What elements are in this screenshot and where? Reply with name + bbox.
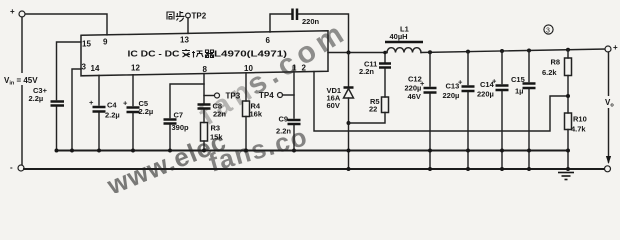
svg-text:2.2µ: 2.2µ (139, 107, 154, 116)
svg-text:C14: C14 (480, 80, 495, 89)
wire C11 to R5 (384, 69, 386, 97)
node snubber tap junction (383, 51, 387, 55)
node C4 bus junction (97, 149, 101, 153)
capacitor C8 (198, 102, 227, 119)
svg-text:+: + (123, 99, 128, 108)
node pin3 bus junction (70, 149, 74, 153)
inductor L1 (385, 25, 423, 53)
node + input terminal (10, 7, 25, 17)
svg-text:16k: 16k (250, 110, 263, 119)
svg-text:TP3: TP3 (226, 92, 241, 101)
node R8 rail junction (566, 48, 570, 52)
svg-text:C15: C15 (511, 75, 525, 84)
svg-text:1µ: 1µ (515, 87, 524, 96)
wire IC output to L1 (328, 52, 387, 54)
svg-text:22: 22 (369, 105, 377, 114)
capacitor C14 (477, 77, 509, 99)
wire pin14 to C4 (98, 75, 100, 105)
wire C14 to rails (501, 92, 503, 170)
node VD1 snubber junction (347, 121, 351, 125)
wire C14 column (501, 51, 503, 84)
label Vin = 45V (3, 73, 47, 87)
capacitor C12 (405, 75, 437, 102)
node C13 rail junction (466, 50, 470, 54)
svg-text:R10: R10 (573, 115, 587, 124)
svg-text:10: 10 (244, 64, 253, 73)
wire bootstrap to switch node (298, 14, 349, 53)
node TP4 (259, 91, 294, 100)
svg-text:C12: C12 (408, 75, 422, 84)
label circled 3 (544, 25, 553, 35)
svg-text:-: - (10, 163, 13, 172)
wire output rail (421, 49, 606, 53)
label IC title (128, 50, 288, 59)
wire R10 to rails (567, 130, 569, 170)
wire R8 to junction (567, 76, 569, 114)
svg-text:1: 1 (292, 64, 297, 73)
wire top input rail (25, 14, 107, 35)
svg-text:2.2n: 2.2n (359, 67, 374, 76)
node C14 rail junction (500, 49, 504, 53)
ground bus (upper) (57, 150, 569, 152)
svg-text:R8: R8 (551, 58, 561, 67)
svg-text:14: 14 (91, 64, 100, 73)
node C3 bus junction (55, 149, 59, 153)
svg-text:IC DC - DC: IC DC - DC (128, 50, 180, 59)
capacitor C3 (29, 86, 65, 106)
wire pin15 to C3 (57, 42, 82, 100)
wire R5 to VD1 (349, 113, 386, 124)
svg-text:390p: 390p (172, 123, 190, 132)
node switch junction (347, 51, 351, 55)
node + output terminal (605, 43, 618, 52)
svg-text:22n: 22n (213, 110, 226, 119)
node C15 rail junction (527, 49, 531, 53)
svg-text:2.2n: 2.2n (276, 127, 291, 136)
svg-text:13: 13 (180, 36, 189, 45)
node C13 bus junction (466, 149, 470, 153)
node TP2 (186, 12, 207, 21)
node VD1 bus junction (347, 149, 351, 153)
svg-text:15k: 15k (210, 133, 223, 142)
node C7 bus junction (168, 149, 172, 153)
node VD1 rail junction (347, 167, 351, 171)
wire output right vertical (608, 52, 610, 162)
svg-text:12: 12 (131, 64, 140, 73)
wire R4 to bus (245, 117, 247, 151)
svg-text:Vin = 45V: Vin = 45V (4, 76, 38, 87)
wire C13 to rails (467, 93, 469, 170)
node R3 bus junction (202, 149, 206, 153)
capacitor 220n bootstrap (293, 9, 320, 27)
wire C15 to rails (528, 90, 530, 170)
svg-text:9: 9 (103, 38, 108, 47)
svg-text:3: 3 (546, 28, 550, 35)
wire C9 to bus (293, 126, 295, 151)
wire pin1 column (293, 72, 295, 118)
wire C12 column (429, 52, 431, 86)
svg-text:15: 15 (82, 40, 91, 49)
resistor R4 (243, 101, 263, 119)
svg-text:C13: C13 (446, 82, 460, 91)
wire output arrow (606, 156, 611, 164)
wire C8 to R3 (203, 110, 205, 123)
svg-text:C9: C9 (279, 115, 289, 124)
node - input terminal (10, 163, 24, 172)
svg-text:2.2µ: 2.2µ (105, 111, 120, 120)
svg-text:4.7k: 4.7k (571, 125, 586, 134)
wire pin8 column (203, 74, 205, 103)
diode VD1 (327, 53, 354, 111)
svg-text:+: + (89, 98, 94, 107)
resistor R8 (542, 50, 572, 77)
node R10 bus junction (566, 149, 570, 153)
wire C4 to bus (98, 113, 100, 151)
wire VD1 anode down (348, 98, 350, 169)
wire input left vertical (21, 17, 23, 165)
capacitor C11 (359, 60, 391, 77)
svg-text:3: 3 (82, 63, 87, 72)
wire pin10 column (245, 73, 247, 101)
wire C5 to bus (132, 114, 134, 151)
node C14 bus junction (500, 149, 504, 153)
svg-text:+: + (10, 7, 15, 16)
svg-text:L4970(L4971): L4970(L4971) (214, 50, 287, 59)
wire snubber tap (384, 53, 386, 63)
svg-text:6.2k: 6.2k (542, 68, 557, 77)
resistor R5 (369, 97, 389, 114)
wire pin3 to bus (72, 69, 81, 151)
svg-text:C7: C7 (174, 111, 184, 120)
node C15 rail2 junction (527, 167, 531, 171)
node C12 rail junction (428, 50, 432, 54)
watermark www.elecfans.com diagonal (102, 15, 353, 201)
svg-text:60V: 60V (327, 101, 340, 110)
wire C7 to bus (169, 125, 171, 151)
node - output terminal (605, 166, 611, 172)
capacitor C7 (164, 111, 190, 133)
wire pin12 to C5 (132, 75, 134, 106)
node R10 rail2 junction (566, 167, 570, 171)
svg-text:40µH: 40µH (390, 32, 408, 41)
wire C13 column (467, 52, 469, 85)
svg-text:C4: C4 (107, 101, 117, 110)
wire pin6 bootstrap (270, 14, 291, 32)
svg-text:2: 2 (302, 64, 307, 73)
node C12 bus junction (428, 149, 432, 153)
capacitor C15 (511, 75, 536, 96)
wire C7 branch horizontal (170, 84, 204, 118)
node R4 bus junction (244, 149, 248, 153)
svg-text:+: + (613, 43, 618, 52)
label Vo (603, 96, 616, 109)
capacitor C5 (123, 99, 153, 117)
svg-text:220µ: 220µ (443, 91, 460, 100)
resistor R3 (201, 123, 224, 142)
svg-text:46V: 46V (408, 92, 421, 101)
node C5 bus junction (131, 149, 135, 153)
wire pin2 feedback (314, 72, 568, 131)
node feedback junction (566, 94, 570, 98)
op-amp U1 IC L4970 box (81, 31, 328, 76)
label 同步 glyphs (167, 11, 185, 22)
svg-text:220n: 220n (302, 17, 320, 26)
node C12 rail2 junction (428, 167, 432, 171)
node TP3 (204, 92, 241, 101)
wire TP2 to pin13 (187, 18, 189, 33)
ground rail (bottom) (24, 168, 604, 170)
capacitor C9 (276, 115, 301, 136)
wire R3 to bus (203, 141, 205, 151)
wire C15 column (528, 51, 530, 82)
node C15 bus junction (527, 149, 531, 153)
label 变换器 glyphs (182, 49, 214, 58)
svg-text:TP2: TP2 (192, 12, 207, 21)
capacitor C4 (89, 98, 120, 120)
svg-text:R3: R3 (211, 124, 221, 133)
resistor R10 (565, 113, 587, 134)
svg-text:2.2µ: 2.2µ (29, 94, 44, 103)
svg-text:6: 6 (266, 36, 271, 45)
node C13 rail2 junction (466, 167, 470, 171)
ground (558, 173, 574, 180)
node C14 rail2 junction (500, 167, 504, 171)
node C9 bus junction (292, 149, 296, 153)
wire C12 to rails (429, 94, 431, 169)
svg-text:TP4: TP4 (259, 91, 274, 100)
capacitor C13 (443, 78, 475, 101)
svg-text:220µ: 220µ (477, 90, 494, 99)
svg-text:8: 8 (203, 65, 208, 74)
wire C3 to bus (56, 107, 58, 151)
